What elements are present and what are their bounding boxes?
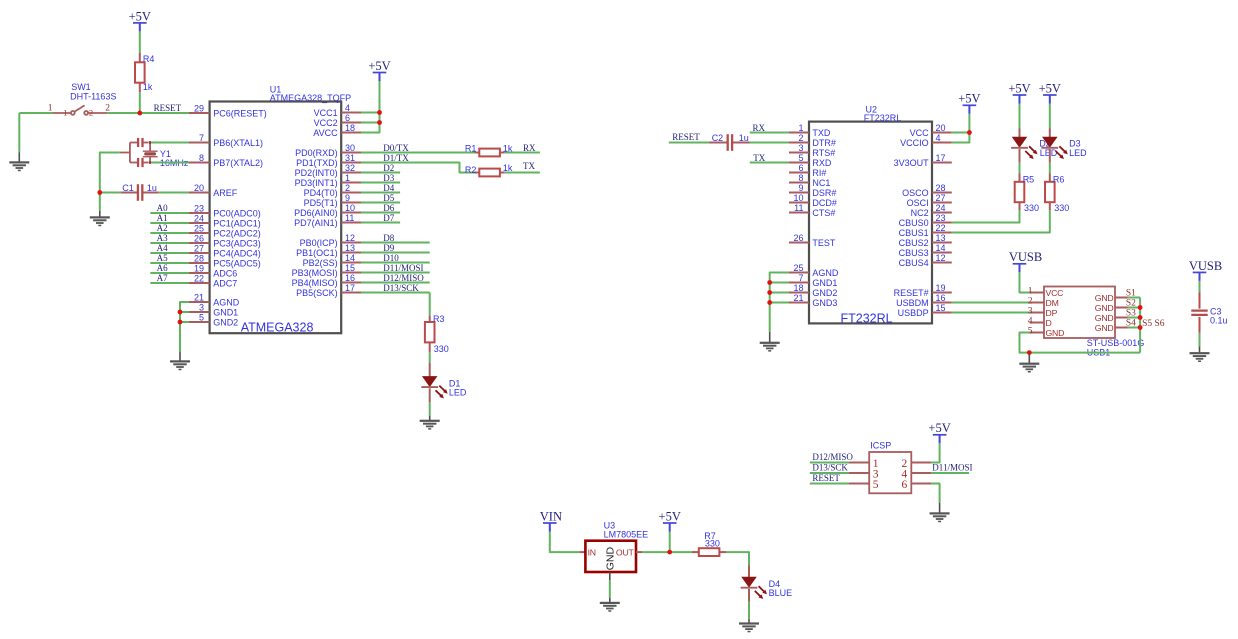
svg-text:D8: D8 — [383, 233, 394, 243]
U2 pin 14 CBUS3 — [899, 243, 952, 258]
wire D13/SCK to ICSP pin 3 — [810, 472, 849, 474]
svg-text:2: 2 — [345, 183, 350, 193]
svg-text:CBUS3: CBUS3 — [899, 248, 929, 258]
wire USBDP to USB DP — [952, 312, 1030, 314]
U2 pin 27 OSCI — [907, 193, 952, 208]
svg-text:OSCO: OSCO — [902, 188, 929, 198]
svg-text:A4: A4 — [157, 243, 168, 253]
ground stem (D1) — [429, 416, 431, 420]
USB1 pin 2 DM — [1028, 296, 1059, 308]
svg-text:A7: A7 — [157, 273, 168, 283]
ground stem (USB1) — [1028, 353, 1030, 363]
junction +5V output — [667, 550, 672, 555]
svg-text:D3: D3 — [1069, 139, 1081, 149]
wire shield S1-S4 down — [1139, 298, 1141, 353]
voltage regulator U3 body — [585, 541, 636, 572]
ICSP pin 5 — [849, 479, 879, 491]
U2 pin 23 CBUS0 — [899, 213, 952, 228]
wire SW1 pin1 down to ground — [18, 113, 20, 153]
wire GND1 — [180, 311, 189, 313]
wire D13/SCK down to R3 — [429, 293, 431, 316]
U1 pin 16 PB4(MISO) — [292, 273, 361, 288]
svg-text:19: 19 — [194, 263, 204, 273]
svg-text:D5: D5 — [383, 193, 394, 203]
ground (ICSP) — [930, 512, 950, 522]
wire +5V to ICSP pin 2 — [931, 443, 939, 462]
ICSP pin 6 — [901, 479, 931, 491]
svg-text:LM7805EE: LM7805EE — [604, 530, 649, 540]
svg-text:C1: C1 — [122, 183, 134, 193]
svg-text:USBDP: USBDP — [898, 308, 929, 318]
svg-text:LED: LED — [1069, 148, 1087, 158]
wire R3 to LED D1 — [429, 352, 431, 363]
U1 pin 2 PD4(T0) — [304, 183, 361, 198]
svg-text:PB1(OC1): PB1(OC1) — [296, 248, 338, 258]
wire SW1 to R4/RESET junction — [107, 112, 189, 114]
LED D3 cathode lead — [1049, 149, 1051, 163]
wire U2 GND2 — [770, 292, 789, 294]
svg-text:1: 1 — [345, 173, 350, 183]
U2 pin 20 VCC — [910, 123, 952, 138]
svg-text:14: 14 — [345, 253, 355, 263]
capacitor C1 — [138, 184, 142, 201]
svg-text:GND2: GND2 — [812, 288, 837, 298]
ground (U1 GND) — [170, 360, 190, 370]
svg-text:1: 1 — [1028, 286, 1033, 296]
svg-text:NC1: NC1 — [812, 178, 830, 188]
svg-text:2: 2 — [89, 107, 93, 117]
svg-text:11: 11 — [794, 203, 803, 213]
svg-text:0.1u: 0.1u — [1210, 316, 1228, 326]
junction GND2 — [178, 320, 183, 325]
U2 pin 13 CBUS2 — [899, 233, 952, 248]
IC U1 ATMEGA328_TQFP body — [210, 102, 342, 334]
junction C1/ground node — [97, 190, 102, 195]
svg-text:24: 24 — [194, 213, 204, 223]
svg-text:D7: D7 — [383, 213, 394, 223]
resistor R3 leads — [429, 316, 431, 322]
U1 pin 12 PB0(ICP) — [300, 233, 361, 248]
power symbol VUSB at C3 — [1189, 259, 1222, 281]
resistor R5 leads — [1019, 174, 1021, 182]
svg-text:GND: GND — [1095, 313, 1114, 323]
svg-text:4: 4 — [345, 103, 350, 113]
wire analog input A3 — [150, 242, 189, 244]
svg-text:PB4(MISO): PB4(MISO) — [292, 278, 338, 288]
resistor R6 leads — [1049, 174, 1051, 182]
svg-text:1u: 1u — [147, 183, 157, 193]
svg-text:R4: R4 — [143, 54, 155, 64]
junction U2 GND1 — [767, 280, 772, 285]
U2 pin 11 CTS# — [789, 203, 835, 218]
svg-text:D: D — [1046, 318, 1052, 328]
svg-text:19: 19 — [936, 283, 946, 293]
svg-text:6: 6 — [345, 113, 350, 123]
svg-text:D2: D2 — [383, 163, 394, 173]
wire digital D4 — [361, 192, 400, 194]
wire digital D11/MOSI — [361, 272, 430, 274]
svg-text:A6: A6 — [157, 263, 168, 273]
capacitor (Y1 bottom, internal) — [138, 158, 142, 167]
svg-text:S1: S1 — [1126, 289, 1136, 299]
resistor R4 body — [135, 62, 145, 82]
wire VUSB to USB VCC — [1020, 272, 1030, 292]
svg-text:7: 7 — [199, 133, 204, 143]
U2 pin 21 GND3 — [789, 293, 837, 308]
svg-text:RESET: RESET — [812, 473, 840, 483]
junction S3 — [1138, 315, 1143, 320]
svg-text:3: 3 — [1028, 306, 1033, 316]
svg-text:PC2(ADC2): PC2(ADC2) — [213, 229, 261, 239]
svg-text:A2: A2 — [157, 223, 168, 233]
svg-text:330: 330 — [434, 344, 449, 354]
U2 pin 12 CBUS4 — [899, 253, 952, 268]
svg-text:22: 22 — [194, 273, 204, 283]
wire R4 to RESET net — [139, 92, 141, 113]
svg-text:PD7(AIN1): PD7(AIN1) — [294, 218, 338, 228]
svg-text:GND: GND — [1095, 293, 1114, 303]
svg-text:TXD: TXD — [812, 128, 831, 138]
capacitor C1 leads — [121, 192, 137, 194]
svg-text:3V3OUT: 3V3OUT — [894, 158, 930, 168]
U2 pin 8 NC1 — [789, 173, 830, 188]
connector ICSP body — [869, 452, 911, 493]
svg-text:28: 28 — [194, 253, 204, 263]
wire VUSB to C3 — [1199, 281, 1201, 294]
svg-text:RESET: RESET — [154, 103, 182, 113]
U1 pin 19 ADC6 — [189, 263, 237, 278]
svg-text:ADC6: ADC6 — [213, 269, 237, 279]
svg-text:VCC2: VCC2 — [314, 118, 338, 128]
resistor R4 leads — [139, 53, 141, 62]
svg-text:S3: S3 — [1126, 309, 1136, 319]
svg-text:S5 S6: S5 S6 — [1142, 319, 1165, 329]
ICSP pin 4 — [901, 468, 931, 480]
svg-text:8: 8 — [199, 153, 204, 163]
ground (D4) — [739, 622, 759, 632]
svg-text:D4: D4 — [383, 183, 394, 193]
svg-text:GND1: GND1 — [812, 278, 837, 288]
svg-text:NC2: NC2 — [911, 208, 929, 218]
svg-text:PB2(SS): PB2(SS) — [303, 258, 338, 268]
svg-text:2: 2 — [1028, 296, 1033, 306]
svg-text:RESET: RESET — [672, 132, 700, 142]
svg-text:ADC7: ADC7 — [213, 279, 237, 289]
ground (D1) — [420, 420, 440, 430]
U3 GND stem — [609, 572, 611, 580]
svg-text:1k: 1k — [143, 82, 153, 92]
wire AGND down — [180, 302, 189, 352]
svg-text:330: 330 — [1054, 203, 1069, 213]
svg-text:D11/MOSI: D11/MOSI — [383, 263, 423, 273]
USB1 pin S2 GND — [1095, 299, 1140, 313]
svg-text:6: 6 — [798, 163, 803, 173]
svg-text:D11/MOSI: D11/MOSI — [932, 463, 972, 473]
wire C1 to AREF — [159, 192, 189, 194]
wire USB GND bottom — [1020, 333, 1141, 353]
svg-text:GND1: GND1 — [213, 308, 238, 318]
svg-text:VCC: VCC — [910, 128, 930, 138]
svg-text:A5: A5 — [157, 253, 168, 263]
wire digital D9 — [361, 252, 430, 254]
svg-text:12: 12 — [936, 253, 946, 263]
junction U2 VCC — [967, 130, 972, 135]
resistor R1 body — [479, 149, 500, 157]
crystal Y1 left leads — [120, 143, 137, 163]
svg-text:+5V: +5V — [1008, 81, 1030, 95]
svg-text:20: 20 — [194, 183, 204, 193]
wire R2 to TX — [505, 172, 540, 174]
svg-text:D3: D3 — [383, 173, 394, 183]
svg-text:PB5(SCK): PB5(SCK) — [296, 288, 338, 298]
power symbol +5V at U1 VCC — [368, 59, 390, 81]
wire analog input A7 — [150, 282, 189, 284]
svg-text:3: 3 — [199, 302, 204, 312]
capacitor C3 leads — [1199, 293, 1201, 333]
svg-text:29: 29 — [194, 103, 204, 113]
U1 pin 31 PD1(TXD) — [296, 153, 361, 168]
svg-text:A3: A3 — [157, 233, 168, 243]
svg-text:12: 12 — [345, 233, 355, 243]
svg-text:4: 4 — [1028, 316, 1033, 326]
U2 pin 24 NC2 — [911, 203, 952, 218]
svg-text:PC0(ADC0): PC0(ADC0) — [213, 209, 261, 219]
svg-text:GND: GND — [1046, 328, 1065, 338]
wire TX to RXD — [750, 162, 789, 164]
LED D1 anode lead — [429, 363, 431, 377]
svg-text:ICSP: ICSP — [870, 441, 891, 451]
svg-text:VIN: VIN — [540, 509, 562, 523]
U2 pin 19 RESET# — [894, 283, 952, 298]
U1 pin 8 PB7(XTAL2) — [189, 153, 263, 168]
capacitor C3 — [1191, 311, 1207, 315]
svg-text:PC4(ADC4): PC4(ADC4) — [213, 249, 261, 259]
svg-text:RXD: RXD — [812, 158, 832, 168]
IC U2 FT232RL body — [809, 122, 932, 324]
ground (USB1) — [1019, 363, 1039, 373]
svg-text:30: 30 — [345, 143, 355, 153]
U1 pin 1 PD3(INT1) — [295, 173, 361, 188]
svg-text:PD4(T0): PD4(T0) — [304, 188, 338, 198]
U2 pin 1 TXD — [789, 123, 831, 138]
wire digital D8 — [361, 242, 430, 244]
wire USBDM to USB DM — [952, 302, 1030, 304]
svg-text:PD6(AIN0): PD6(AIN0) — [294, 208, 338, 218]
wire VCC to +5V — [952, 132, 970, 134]
junction S4 — [1138, 325, 1143, 330]
svg-text:13: 13 — [936, 233, 946, 243]
ground stem (crystal/C1) — [99, 211, 101, 217]
wire GND2 — [180, 321, 189, 323]
svg-text:DHT-1163S: DHT-1163S — [70, 92, 116, 102]
wire RESET to ICSP pin 5 — [810, 483, 849, 485]
wire +5V to VCCIO — [952, 114, 970, 143]
svg-text:+5V: +5V — [958, 92, 980, 106]
U2 pin 15 USBDP — [898, 303, 952, 318]
U1 pin 23 PC0(ADC0) — [189, 203, 261, 218]
wire D0/TX to R1 — [361, 152, 475, 154]
U1 pin 32 PD2(INT0) — [295, 163, 361, 178]
U2 pin 7 GND1 — [789, 273, 837, 288]
ground stem (U2 GND) — [769, 332, 771, 342]
power symbol +5V at ICSP — [928, 421, 950, 443]
svg-text:ATMEGA328: ATMEGA328 — [241, 321, 314, 335]
LED D2 cathode lead — [1019, 149, 1021, 163]
svg-text:VUSB: VUSB — [1009, 250, 1042, 264]
svg-text:R5: R5 — [1023, 175, 1035, 185]
U2 pin 17 3V3OUT — [894, 153, 952, 168]
USB1 pin S4 GND — [1095, 319, 1140, 333]
svg-text:AVCC: AVCC — [313, 128, 338, 138]
wire VIN to U3 IN — [550, 532, 580, 553]
svg-text:17: 17 — [345, 283, 355, 293]
U1 pin 30 PD0(RXD) — [295, 143, 361, 158]
ground stem (C3) — [1199, 347, 1201, 353]
resistor R2 body — [479, 169, 500, 177]
svg-text:RI#: RI# — [812, 168, 826, 178]
svg-text:D13/SCK: D13/SCK — [383, 283, 419, 293]
wire LED D3 to R6 — [1049, 163, 1051, 174]
svg-text:15: 15 — [345, 263, 355, 273]
ICSP pin 2 — [901, 458, 931, 470]
svg-text:7: 7 — [798, 273, 803, 283]
svg-text:CBUS4: CBUS4 — [899, 258, 929, 268]
svg-text:D6: D6 — [383, 203, 394, 213]
U1 pin 27 PC4(ADC4) — [189, 243, 261, 258]
wire U2 GND1 — [770, 282, 789, 284]
wire analog input A2 — [150, 232, 189, 234]
wire VCC2 — [361, 122, 380, 124]
svg-text:VUSB: VUSB — [1189, 259, 1222, 273]
USB1 pin S3 GND — [1095, 309, 1140, 323]
junction GND1 — [178, 310, 183, 315]
power symbol +5V at R4 — [129, 9, 151, 31]
svg-text:330: 330 — [705, 539, 720, 549]
ground (SW1) — [9, 161, 29, 171]
U1 pin 26 PC3(ADC3) — [189, 233, 261, 248]
wire RX to TXD — [750, 132, 789, 134]
svg-text:16: 16 — [936, 293, 946, 303]
capacitor (Y1 top, internal) — [138, 138, 142, 147]
ICSP pin 1 — [849, 458, 879, 470]
svg-text:5: 5 — [873, 479, 879, 491]
switch SW1 symbol — [53, 105, 108, 114]
svg-text:RTS#: RTS# — [812, 148, 835, 158]
wire CBUS1 to R6 — [952, 210, 1050, 233]
svg-text:CBUS1: CBUS1 — [899, 228, 929, 238]
connector USB1 body — [1044, 287, 1115, 339]
svg-text:R2: R2 — [465, 165, 477, 175]
svg-text:SW1: SW1 — [71, 82, 91, 92]
svg-text:5: 5 — [1028, 326, 1033, 336]
svg-text:CTS#: CTS# — [812, 208, 835, 218]
svg-text:DCD#: DCD# — [812, 198, 837, 208]
svg-text:D0/TX: D0/TX — [383, 143, 409, 153]
U1 pin 14 PB2(SS) — [303, 253, 361, 268]
junction VCC2 — [377, 120, 382, 125]
resistor R7 body — [699, 548, 720, 556]
ground (crystal/C1) — [90, 216, 110, 226]
svg-text:PC6(RESET): PC6(RESET) — [213, 109, 267, 119]
U2 pin 6 RI# — [789, 163, 826, 178]
wire D1/TX to R2 — [361, 163, 475, 173]
svg-text:D10: D10 — [383, 253, 399, 263]
U1 pin 28 PC5(ADC5) — [189, 253, 261, 268]
wire analog input A0 — [150, 212, 189, 214]
svg-text:26: 26 — [793, 233, 803, 243]
svg-text:27: 27 — [194, 243, 204, 253]
svg-text:TEST: TEST — [812, 238, 836, 248]
svg-text:+5V: +5V — [659, 509, 681, 523]
svg-text:2: 2 — [798, 133, 803, 143]
svg-text:25: 25 — [793, 263, 803, 273]
power symbol +5V at LED D2 — [1008, 81, 1030, 103]
U1 pin 10 PD6(AIN0) — [294, 203, 361, 218]
U1 pin 22 ADC7 — [189, 273, 237, 288]
wire U2 GND3 — [770, 302, 789, 304]
ground stem (U1 GND) — [179, 352, 181, 361]
svg-text:DM: DM — [1046, 298, 1059, 308]
U2 pin 26 TEST — [789, 233, 836, 248]
svg-text:PD0(RXD): PD0(RXD) — [295, 148, 338, 158]
junction VCC1 — [377, 110, 382, 115]
svg-text:27: 27 — [936, 193, 946, 203]
wire U3 GND to ground — [609, 580, 611, 598]
power symbol +5V at U2 VCC — [958, 92, 980, 114]
svg-text:OUT: OUT — [616, 548, 635, 558]
U1 pin 17 PB5(SCK) — [296, 283, 361, 298]
svg-text:13: 13 — [345, 243, 355, 253]
power symbol +5V at U3 output — [659, 509, 681, 531]
svg-text:A0: A0 — [157, 203, 168, 213]
wire node to C1 — [100, 192, 121, 194]
svg-text:GND: GND — [1095, 323, 1114, 333]
svg-text:5: 5 — [798, 153, 803, 163]
ground stem (SW1) — [18, 153, 20, 162]
wire digital D7 — [361, 222, 400, 224]
USB1 pin 4 D — [1028, 316, 1052, 328]
wire RESET to C2 — [669, 142, 709, 144]
svg-text:USBDM: USBDM — [896, 298, 929, 308]
LED D1 symbol — [421, 377, 447, 399]
resistor R3 body — [425, 322, 435, 342]
svg-text:R3: R3 — [433, 314, 445, 324]
wire ICSP pin 4 D11/MOSI — [931, 472, 969, 474]
svg-text:A1: A1 — [157, 213, 168, 223]
wire digital D12/MISO — [361, 282, 430, 284]
wire U2 AGND down — [770, 273, 789, 333]
wire digital D2 — [361, 172, 400, 174]
wire Y1 bottom to PB7 — [152, 162, 189, 164]
wire digital D3 — [361, 182, 400, 184]
svg-text:PC1(ADC1): PC1(ADC1) — [213, 219, 261, 229]
svg-text:+5V: +5V — [928, 421, 950, 435]
U1 pin 11 PD7(AIN1) — [294, 213, 361, 228]
LED D3 anode lead — [1049, 129, 1051, 138]
ground (U3) — [600, 602, 620, 612]
svg-text:10: 10 — [793, 193, 803, 203]
U1 pin 24 PC1(ADC1) — [189, 213, 261, 228]
wire +5V to LED D2 — [1019, 104, 1021, 129]
svg-text:LED: LED — [449, 387, 467, 397]
svg-text:GND3: GND3 — [812, 298, 837, 308]
resistor R6 body — [1045, 182, 1055, 202]
svg-text:D9: D9 — [383, 243, 394, 253]
svg-text:28: 28 — [936, 183, 946, 193]
svg-text:10: 10 — [345, 203, 355, 213]
svg-text:11: 11 — [345, 213, 354, 223]
wire U3 OUT to R7 — [642, 551, 692, 553]
